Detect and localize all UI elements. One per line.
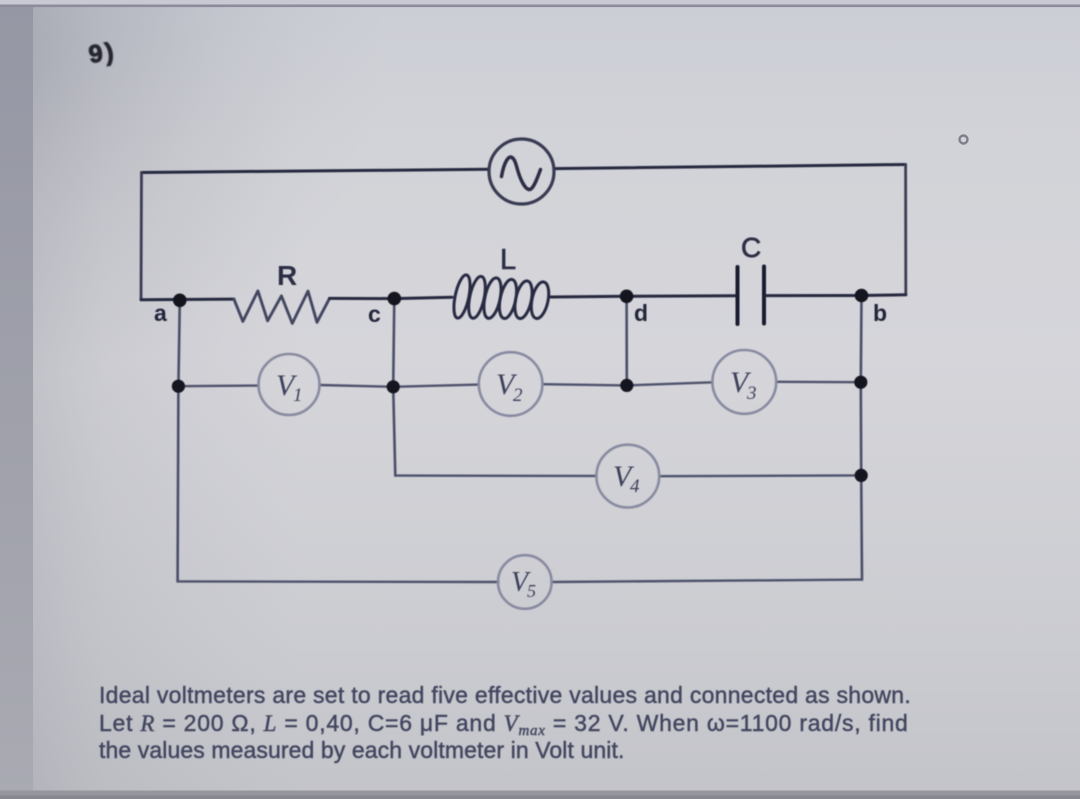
wire inductor to d [551, 295, 627, 299]
wire V4 row left [395, 474, 596, 477]
label V1 [276, 369, 303, 406]
wire column d [625, 296, 628, 385]
svg-text:R: R [277, 260, 297, 291]
svg-text:L: L [500, 244, 516, 276]
wire V5 row right [551, 580, 862, 582]
resistor R [234, 291, 330, 324]
svg-text:9): 9) [87, 37, 118, 69]
junction b-V4 [855, 469, 868, 482]
label V5 [511, 567, 536, 601]
wire V2 row right [542, 384, 626, 385]
top dark line [0, 5, 1080, 8]
dust dot [960, 136, 968, 144]
junction d-V2V3 [620, 379, 633, 392]
svg-text:5: 5 [527, 581, 536, 601]
wire V5 row left [178, 580, 499, 583]
capacitor C right plate [762, 267, 766, 324]
left desk band [0, 6, 33, 799]
node b [855, 289, 869, 303]
label 9) [87, 37, 118, 69]
wire c to inductor [394, 297, 452, 298]
inductor L coil [451, 274, 552, 321]
wire d to capacitor [627, 294, 736, 298]
svg-text:a: a [154, 300, 167, 326]
wire right vertical [904, 165, 907, 295]
junction a-V1 [172, 380, 185, 393]
wire top (right half) [554, 165, 906, 169]
voltmeter V5 circle [498, 555, 552, 609]
node a [173, 294, 187, 308]
wire column c [393, 299, 395, 476]
svg-text:2: 2 [513, 385, 523, 406]
ac source U1 [489, 139, 554, 204]
wire column b [861, 296, 862, 580]
svg-text:Ideal voltmeters are set to re: Ideal voltmeters are set to read five ef… [99, 682, 911, 708]
wire resistor to c [330, 297, 395, 300]
voltmeter V4 circle [596, 445, 659, 508]
junction c-V1V2 [387, 380, 400, 393]
svg-text:Let R = 200 Ω, L = 0,40, C=6 μ: Let R = 200 Ω, L = 0,40, C=6 μF and Vmax… [99, 710, 909, 739]
svg-text:d: d [634, 300, 648, 326]
label V2 [496, 368, 523, 406]
wire V3 row left [627, 382, 713, 385]
node c [388, 292, 402, 306]
label V4 [613, 460, 640, 497]
svg-text:4: 4 [630, 476, 640, 497]
wire V4 row right [659, 474, 861, 477]
bottom dark strip [0, 791, 1080, 799]
voltmeter V2 circle [479, 352, 543, 416]
ac source sine symbol [502, 157, 541, 189]
svg-text:C: C [741, 232, 761, 263]
svg-text:c: c [368, 301, 381, 327]
node d [620, 290, 634, 304]
voltmeter V3 circle [712, 350, 776, 414]
wire main a-corner to resistor [141, 298, 234, 302]
wire V1 row left [178, 384, 258, 387]
capacitor C left plate [736, 267, 740, 324]
svg-text:1: 1 [293, 385, 303, 406]
svg-text:3: 3 [746, 383, 757, 404]
wire top (left half) [142, 169, 490, 172]
label V3 [730, 366, 757, 404]
wire V2 row left [393, 385, 479, 387]
wire capacitor to b [766, 294, 862, 297]
wire V1 row right [320, 385, 394, 387]
wire V3 row right [776, 381, 861, 384]
svg-text:b: b [873, 300, 887, 326]
top light strip [0, 0, 1080, 5]
wire column a [178, 300, 180, 581]
wire left vertical [140, 173, 143, 300]
wire b to right corner [862, 293, 906, 297]
junction b-V3 [854, 376, 867, 389]
voltmeter V1 circle [259, 354, 320, 415]
svg-text:the values measured by each vo: the values measured by each voltmeter in… [99, 737, 624, 763]
